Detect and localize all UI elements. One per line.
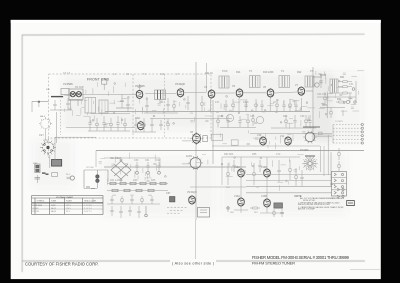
svg-text:V11: V11 — [280, 135, 285, 138]
svg-text:TUBE: TUBE — [51, 201, 57, 203]
svg-text:C72: C72 — [276, 153, 281, 156]
svg-text:R34: R34 — [337, 98, 342, 101]
svg-text:( Also see other side ): ( Also see other side ) — [172, 261, 214, 265]
svg-text:C62: C62 — [156, 159, 161, 162]
svg-text:6AQ8: 6AQ8 — [51, 210, 56, 213]
svg-text:10K: 10K — [226, 187, 230, 189]
svg-text:6AL5: 6AL5 — [40, 115, 46, 118]
svg-text:V12A: V12A — [234, 166, 240, 169]
svg-text:SYMBOL: SYMBOL — [37, 201, 45, 203]
svg-text:C60: C60 — [134, 159, 139, 162]
svg-text:MEG=1,000,000 UNLESS NOTED: MEG=1,000,000 UNLESS NOTED — [298, 204, 330, 206]
svg-text:C14: C14 — [160, 73, 165, 76]
svg-text:V2 6HA5: V2 6HA5 — [135, 85, 145, 88]
svg-text:1K: 1K — [273, 101, 276, 104]
svg-text:6HA5: 6HA5 — [51, 204, 56, 207]
svg-text:V13B: V13B — [261, 195, 267, 198]
svg-text:FRONT END: FRONT END — [87, 78, 110, 82]
svg-text:47K: 47K — [349, 83, 354, 86]
svg-text:C3 1.5: C3 1.5 — [63, 72, 71, 75]
svg-text:V1 RF AMP: V1 RF AMP — [32, 204, 43, 207]
svg-text:100K: 100K — [243, 101, 249, 104]
svg-text:C39: C39 — [300, 115, 305, 118]
svg-text:ABOVE 1 IN MMF: ABOVE 1 IN MMF — [298, 208, 316, 211]
svg-text:47K: 47K — [215, 101, 220, 104]
svg-text:R22: R22 — [297, 71, 302, 74]
svg-text:V2 MIX: V2 MIX — [32, 208, 39, 210]
svg-text:VOLTAGE CHART: VOLTAGE CHART — [56, 196, 74, 199]
svg-text:T2 IF: T2 IF — [222, 70, 228, 73]
svg-text:R55: R55 — [252, 153, 257, 156]
svg-text:GRID & CATH: GRID & CATH — [84, 200, 97, 203]
svg-text:110 V: 110 V — [66, 208, 72, 210]
svg-text:FM-FM STEREO TUNER: FM-FM STEREO TUNER — [252, 261, 295, 266]
svg-text:V9 6AQ5: V9 6AQ5 — [187, 191, 197, 194]
svg-text:COURTESY OF FISHER RADIO CORP.: COURTESY OF FISHER RADIO CORP. — [25, 261, 99, 266]
svg-text:C31: C31 — [219, 115, 224, 118]
svg-text:V10: V10 — [257, 134, 262, 137]
svg-text:R52 68K: R52 68K — [224, 153, 234, 156]
svg-text:R31: R31 — [340, 76, 345, 79]
svg-text:R41 2.2K: R41 2.2K — [110, 179, 120, 182]
svg-text:TAPE: TAPE — [330, 183, 336, 186]
svg-text:135 V: 135 V — [66, 205, 72, 207]
svg-text:V12B: V12B — [261, 166, 267, 169]
svg-text:R14: R14 — [236, 71, 241, 74]
svg-text:T8 MPX: T8 MPX — [300, 149, 309, 152]
svg-text:R45: R45 — [151, 179, 156, 182]
svg-text:C61: C61 — [145, 159, 150, 162]
svg-text:PLATE: PLATE — [66, 200, 73, 203]
svg-text:OSC: OSC — [135, 117, 140, 120]
svg-text:SEL RECT: SEL RECT — [110, 157, 122, 160]
svg-text:6AQ8: 6AQ8 — [51, 207, 56, 210]
svg-text:R26: R26 — [283, 115, 288, 118]
svg-text:FISHER MODEL FM-300-B SERIAL #: FISHER MODEL FM-300-B SERIAL # 30001 THR… — [252, 255, 350, 260]
svg-text:V13A: V13A — [234, 195, 240, 198]
svg-text:RF AMP: RF AMP — [75, 86, 84, 89]
svg-text:EM84: EM84 — [186, 155, 193, 158]
svg-text:1.2 V 0.8: 1.2 V 0.8 — [84, 205, 92, 207]
svg-text:V3 OSC: V3 OSC — [32, 211, 40, 213]
svg-text:DET: DET — [39, 134, 44, 137]
svg-text:117V AC: 117V AC — [86, 166, 95, 169]
svg-text:R43: R43 — [133, 179, 138, 182]
svg-text:2.1 V 1.4: 2.1 V 1.4 — [84, 208, 92, 210]
svg-text:220K: 220K — [322, 104, 328, 107]
svg-text:C44 100: C44 100 — [317, 93, 327, 96]
svg-text:V3 6AQ8: V3 6AQ8 — [175, 83, 185, 86]
svg-text:C21 01: C21 01 — [205, 72, 213, 75]
svg-text:C67: C67 — [166, 192, 171, 195]
svg-text:TO MPX: TO MPX — [335, 121, 344, 123]
svg-text:C35: C35 — [250, 115, 255, 118]
svg-text:6DT6: 6DT6 — [320, 74, 327, 77]
svg-text:V1 6HA5: V1 6HA5 — [63, 83, 73, 86]
svg-text:R19 220K: R19 220K — [263, 71, 274, 74]
svg-text:1.8 V 1.1: 1.8 V 1.1 — [84, 211, 92, 213]
